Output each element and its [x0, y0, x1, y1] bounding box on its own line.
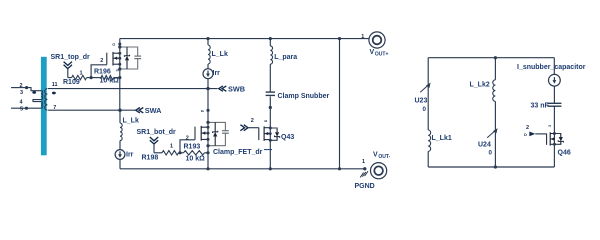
svg-text:I_snubber_capacitor: I_snubber_capacitor — [517, 64, 586, 71]
svg-text:OUT+: OUT+ — [375, 51, 389, 57]
svg-text:SR1_top_dr: SR1_top_dr — [51, 54, 91, 61]
svg-text:3: 3 — [548, 125, 552, 127]
svg-text:Irr: Irr — [213, 70, 221, 77]
svg-text:SWA: SWA — [145, 106, 162, 115]
svg-text:2: 2 — [251, 118, 254, 124]
svg-text:0: 0 — [423, 106, 427, 113]
svg-text:11: 11 — [52, 82, 58, 88]
svg-text:1: 1 — [361, 34, 364, 40]
svg-text:D: D — [524, 132, 527, 137]
svg-text:1: 1 — [362, 159, 365, 165]
svg-text:PGND: PGND — [355, 183, 375, 190]
svg-text:Irr: Irr — [126, 151, 134, 158]
svg-text:L_para: L_para — [274, 54, 297, 61]
svg-text:10 kΩ: 10 kΩ — [186, 156, 206, 163]
svg-text:Q46: Q46 — [558, 149, 571, 156]
svg-text:2: 2 — [20, 83, 23, 89]
svg-text:L_Lk1: L_Lk1 — [432, 135, 452, 142]
svg-text:R193: R193 — [184, 144, 201, 151]
svg-text:1: 1 — [170, 144, 173, 150]
svg-text:U24: U24 — [478, 141, 491, 148]
svg-text:3: 3 — [20, 90, 23, 96]
svg-text:2: 2 — [100, 58, 103, 64]
svg-text:V: V — [373, 152, 378, 159]
svg-text:R196: R196 — [94, 69, 111, 76]
svg-text:Q43: Q43 — [281, 134, 294, 141]
svg-text:Clamp_FET_dr: Clamp_FET_dr — [213, 149, 263, 156]
svg-text:2: 2 — [526, 125, 529, 131]
svg-text:U23: U23 — [415, 98, 428, 105]
svg-text:SR1_bot_dr: SR1_bot_dr — [137, 129, 177, 136]
svg-text:Clamp Snubber: Clamp Snubber — [278, 93, 330, 100]
svg-text:33 nF: 33 nF — [531, 103, 550, 110]
svg-text:1: 1 — [80, 70, 83, 76]
svg-text:R109: R109 — [63, 79, 80, 86]
svg-text:0: 0 — [489, 149, 493, 156]
svg-text:SWB: SWB — [228, 84, 245, 93]
svg-text:V: V — [370, 49, 375, 56]
svg-text:10 kΩ: 10 kΩ — [100, 78, 120, 85]
svg-text:R198: R198 — [142, 155, 159, 162]
svg-text:L_Lk: L_Lk — [123, 118, 139, 125]
svg-text:L_Lk: L_Lk — [212, 51, 228, 58]
svg-text:L_Lk2: L_Lk2 — [470, 81, 490, 88]
svg-text:5: 5 — [20, 107, 23, 113]
svg-text:2: 2 — [186, 136, 189, 142]
svg-text:OUT-: OUT- — [378, 154, 390, 160]
